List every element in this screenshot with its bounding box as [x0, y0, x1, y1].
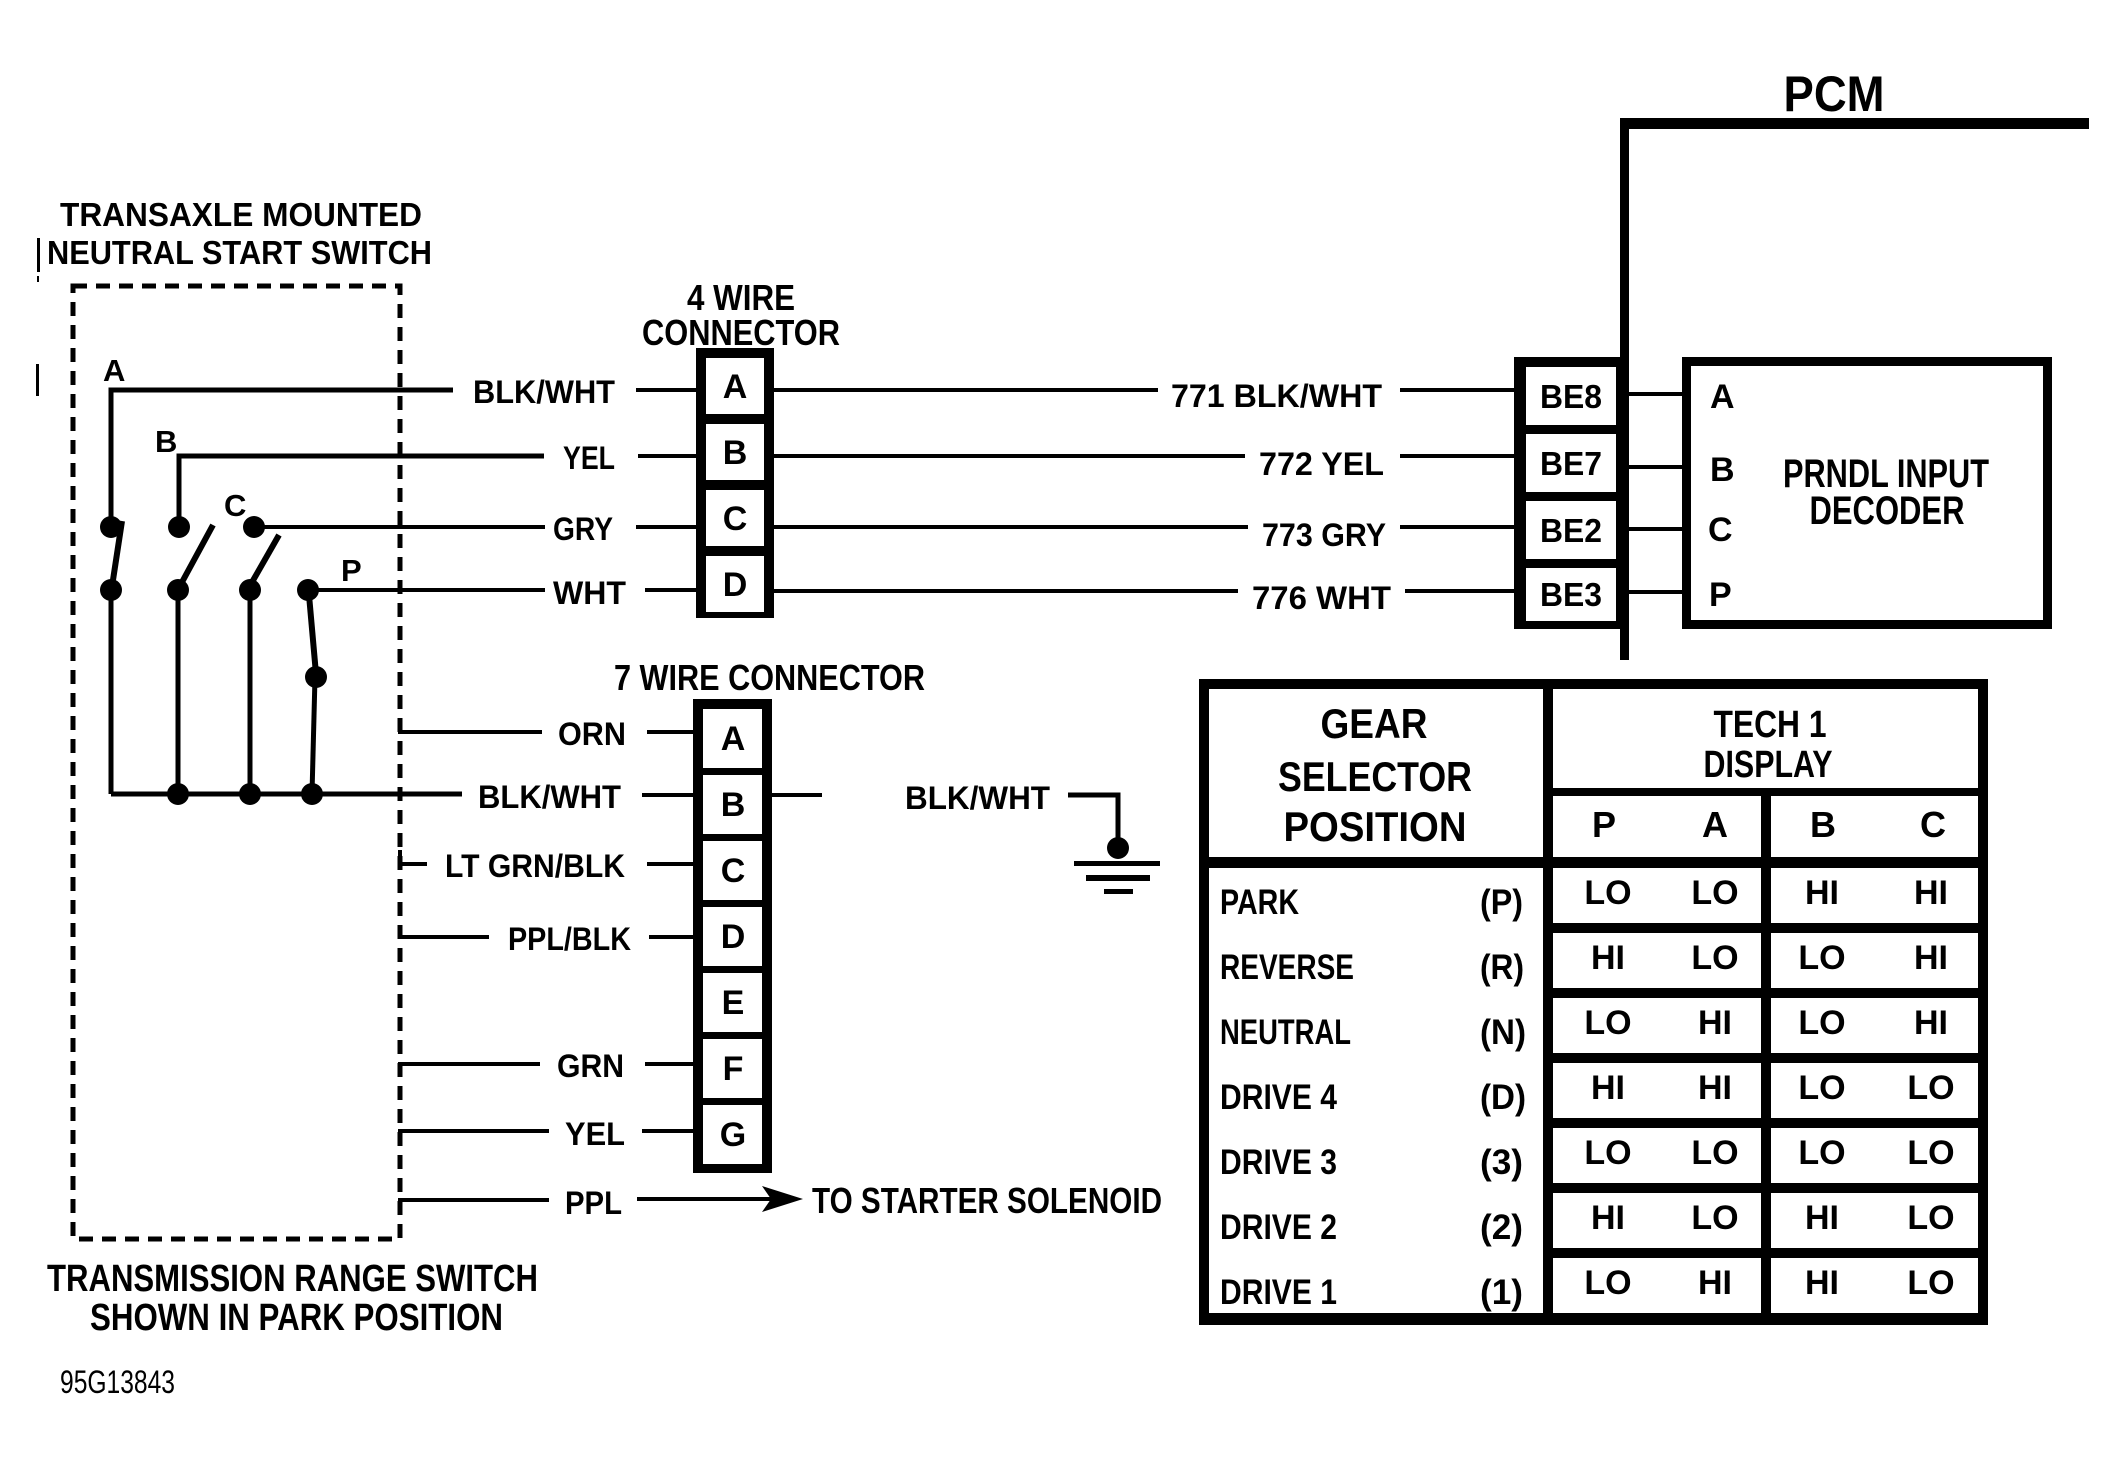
wire 773 to BE2 [1400, 525, 1516, 529]
wire GRN to pin F [645, 1062, 695, 1066]
svg-text:SELECTOR: SELECTOR [1278, 753, 1472, 800]
svg-text:LO: LO [1691, 874, 1738, 912]
svg-text:POSITION: POSITION [1284, 803, 1467, 850]
switch pole B upper contact [168, 516, 190, 538]
svg-text:SHOWN IN PARK POSITION: SHOWN IN PARK POSITION [90, 1297, 503, 1339]
switch SW1 dashed enclosure [73, 286, 400, 1239]
svg-text:A: A [103, 353, 125, 388]
svg-text:E: E [722, 984, 745, 1022]
PRNDL input decoder U1 box [1682, 357, 2052, 629]
table header cell: gear selector position [1209, 689, 1543, 857]
connector J1 pin A cell [706, 358, 764, 414]
svg-text:LO: LO [1691, 1134, 1738, 1172]
svg-text:7 WIRE CONNECTOR: 7 WIRE CONNECTOR [614, 657, 925, 698]
switch pole A upper contact [100, 516, 122, 538]
svg-text:772 YEL: 772 YEL [1259, 446, 1384, 482]
data row 2 [1553, 933, 1761, 988]
pin BE3 cell [1526, 568, 1616, 621]
svg-text:ORN: ORN [558, 716, 626, 752]
svg-text:771 BLK/WHT: 771 BLK/WHT [1171, 378, 1382, 414]
svg-text:BE8: BE8 [1540, 378, 1602, 415]
wire LT GRN/BLK to pin C [647, 862, 695, 866]
svg-text:(P): (P) [1480, 883, 1523, 922]
data row 7 [1553, 1258, 1761, 1313]
svg-text:LO: LO [1584, 1134, 1631, 1172]
wire A down to bus [109, 590, 114, 794]
wire YEL to pin G [642, 1129, 695, 1133]
svg-text:(R): (R) [1480, 948, 1524, 987]
connector J1 pin B cell [706, 424, 764, 480]
ground bus wire [111, 792, 462, 797]
svg-text:HI: HI [1591, 1069, 1625, 1107]
svg-text:P: P [341, 553, 362, 588]
svg-text:LO: LO [1584, 874, 1631, 912]
connector J2 (7 wire) body [693, 699, 772, 1173]
svg-text:95G13843: 95G13843 [60, 1364, 175, 1400]
wire row A to connector [636, 388, 698, 392]
svg-text:(1): (1) [1480, 1273, 1523, 1312]
svg-text:DRIVE 2: DRIVE 2 [1220, 1208, 1337, 1247]
svg-text:HI: HI [1805, 874, 1839, 912]
bus junction B [167, 783, 189, 805]
wire PPL arrow to starter solenoid [637, 1197, 775, 1201]
scan artifact tick 2 [36, 364, 39, 396]
svg-text:NEUTRAL: NEUTRAL [1220, 1013, 1351, 1052]
svg-text:LO: LO [1907, 1069, 1954, 1107]
table left data cell [1209, 868, 1543, 1313]
table header cell: tech 1 display [1553, 689, 1978, 788]
svg-text:BLK/WHT: BLK/WHT [478, 779, 621, 815]
svg-text:(3): (3) [1480, 1143, 1523, 1182]
svg-text:LT GRN/BLK: LT GRN/BLK [445, 848, 625, 884]
wire row B to connector [638, 454, 698, 458]
bus junction C [239, 783, 261, 805]
svg-text:YEL: YEL [565, 1116, 625, 1152]
svg-text:PPL: PPL [565, 1185, 622, 1221]
bus junction P [301, 783, 323, 805]
svg-text:DECODER: DECODER [1810, 489, 1965, 533]
wire 773 from connector C [774, 525, 1248, 529]
svg-text:HI: HI [1698, 1004, 1732, 1042]
scan artifact tick 1 [37, 238, 40, 272]
svg-text:GRN: GRN [557, 1048, 624, 1084]
data row 4 [1553, 1063, 1761, 1118]
svg-text:LO: LO [1798, 1069, 1845, 1107]
svg-text:P: P [1592, 804, 1616, 845]
svg-text:HI: HI [1914, 939, 1948, 977]
svg-text:C: C [723, 500, 748, 538]
svg-text:F: F [723, 1050, 744, 1088]
pin BE8 cell [1526, 367, 1616, 425]
gear selector table frame [1199, 679, 1988, 1325]
connector J1 pin D cell [706, 556, 764, 612]
svg-text:C: C [1920, 804, 1946, 845]
pin BE7 cell [1526, 434, 1616, 492]
switch pole C upper contact [243, 516, 265, 538]
svg-text:LO: LO [1584, 1004, 1631, 1042]
svg-text:LO: LO [1584, 1264, 1631, 1302]
svg-text:(D): (D) [1480, 1078, 1526, 1117]
wire row C to connector [636, 525, 698, 529]
svg-text:G: G [720, 1116, 746, 1154]
svg-text:B: B [1810, 804, 1836, 845]
svg-text:LO: LO [1907, 1134, 1954, 1172]
svg-text:DRIVE 4: DRIVE 4 [1220, 1078, 1337, 1117]
wire C down to bus [248, 590, 253, 794]
svg-text:P: P [1709, 576, 1732, 614]
svg-text:NEUTRAL START SWITCH: NEUTRAL START SWITCH [47, 234, 432, 271]
svg-text:YEL: YEL [563, 440, 615, 476]
svg-text:HI: HI [1698, 1264, 1732, 1302]
wire 771 to BE8 [1400, 388, 1516, 392]
svg-text:LO: LO [1691, 939, 1738, 977]
svg-text:BLK/WHT: BLK/WHT [473, 374, 615, 410]
svg-text:WHT: WHT [553, 575, 626, 611]
wire BE8 to decoder A [1626, 392, 1686, 396]
wire 771 from connector A [774, 388, 1158, 392]
switch pole C lower contact [239, 579, 261, 601]
connector J2 pin A cell [703, 709, 762, 768]
svg-text:PCM: PCM [1784, 66, 1885, 122]
svg-text:A: A [721, 720, 746, 758]
svg-text:776 WHT: 776 WHT [1252, 580, 1391, 616]
table subheader P A [1553, 796, 1761, 857]
switch pole A lower contact [100, 579, 122, 601]
data row 6 [1553, 1193, 1761, 1248]
svg-text:HI: HI [1805, 1264, 1839, 1302]
ground G1 [1107, 837, 1129, 859]
svg-text:DISPLAY: DISPLAY [1704, 744, 1833, 786]
svg-text:C: C [1708, 511, 1733, 549]
svg-text:HI: HI [1591, 1199, 1625, 1237]
svg-text:C: C [721, 852, 746, 890]
wire C from upper contact [254, 525, 545, 529]
svg-text:GRY: GRY [553, 511, 613, 547]
svg-text:(2): (2) [1480, 1208, 1523, 1247]
PCM boundary left line [1620, 118, 1629, 660]
connector J2 pin C cell [703, 841, 762, 900]
svg-text:TRANSAXLE MOUNTED: TRANSAXLE MOUNTED [60, 196, 422, 233]
switch pole P blade (closed) [309, 595, 316, 674]
svg-text:HI: HI [1591, 939, 1625, 977]
wire ORN to pin A [647, 730, 695, 734]
svg-text:BE7: BE7 [1540, 445, 1602, 482]
wire P from contact [308, 588, 545, 592]
svg-text:TRANSMISSION RANGE SWITCH: TRANSMISSION RANGE SWITCH [47, 1258, 538, 1300]
svg-text:DRIVE 3: DRIVE 3 [1220, 1143, 1337, 1182]
wire stub LT GRN/BLK [398, 850, 402, 864]
wire A riser [111, 390, 453, 527]
svg-text:A: A [1710, 378, 1735, 416]
wire 772 from connector B [774, 454, 1245, 458]
wire from pin B right [772, 793, 822, 797]
switch pole A blade (closed) [113, 521, 122, 580]
connector J2 pin B cell [703, 775, 762, 834]
wire BE3 to decoder P [1626, 590, 1686, 594]
svg-text:B: B [1710, 451, 1735, 489]
switch pole P contact [297, 579, 319, 601]
wire stub ORN [398, 730, 542, 734]
svg-text:BLK/WHT: BLK/WHT [905, 780, 1050, 816]
pin BE2 cell [1526, 501, 1616, 559]
svg-text:LO: LO [1907, 1199, 1954, 1237]
data row 1 [1553, 868, 1761, 923]
wire row D to connector [645, 588, 698, 592]
svg-text:LO: LO [1907, 1264, 1954, 1302]
svg-text:HI: HI [1914, 874, 1948, 912]
connector J2 pin G cell [703, 1105, 762, 1164]
svg-text:A: A [1702, 804, 1728, 845]
svg-text:B: B [721, 786, 746, 824]
svg-text:B: B [723, 434, 748, 472]
wire stub GRN [398, 1062, 540, 1066]
wire stub YEL [398, 1129, 549, 1133]
data row 5 [1553, 1128, 1761, 1183]
svg-text:LO: LO [1798, 1004, 1845, 1042]
svg-text:TECH 1: TECH 1 [1714, 704, 1827, 746]
svg-text:A: A [723, 368, 748, 406]
wire 776 to BE3 [1405, 589, 1516, 593]
switch pole B lower contact [167, 579, 189, 601]
wire 776 from connector D [774, 589, 1238, 593]
wire B down to bus [176, 590, 181, 794]
PCM boundary top line [1620, 118, 2089, 129]
wire P down to bus [312, 677, 315, 794]
svg-text:LO: LO [1691, 1199, 1738, 1237]
wire BE7 to decoder B [1626, 465, 1686, 469]
svg-text:BE2: BE2 [1540, 512, 1602, 549]
svg-text:LO: LO [1798, 1134, 1845, 1172]
svg-text:HI: HI [1914, 1004, 1948, 1042]
connector J1 pin C cell [706, 490, 764, 546]
wire stub PPL/BLK [398, 935, 489, 939]
switch pole B blade (open) [181, 525, 213, 584]
wire 772 to BE7 [1400, 454, 1516, 458]
wire to ground [1068, 795, 1118, 846]
svg-text:BE3: BE3 [1540, 576, 1602, 613]
wire B riser [179, 456, 544, 527]
svg-text:B: B [155, 424, 177, 459]
switch pole P pivot [305, 666, 327, 688]
svg-text:(N): (N) [1480, 1013, 1526, 1052]
svg-text:PPL/BLK: PPL/BLK [508, 921, 631, 957]
data row 3 [1553, 998, 1761, 1053]
svg-text:REVERSE: REVERSE [1220, 948, 1354, 987]
svg-text:HI: HI [1698, 1069, 1732, 1107]
switch pole C blade (open) [251, 535, 279, 584]
connector J1 (4 wire) body [696, 348, 774, 618]
connector J2 pin E cell [703, 973, 762, 1032]
svg-text:C: C [224, 488, 246, 523]
svg-text:CONNECTOR: CONNECTOR [642, 312, 840, 353]
PCM pin block body [1514, 357, 1626, 629]
svg-text:DRIVE 1: DRIVE 1 [1220, 1273, 1337, 1312]
svg-text:LO: LO [1798, 939, 1845, 977]
connector J2 pin F cell [703, 1039, 762, 1098]
connector J2 pin D cell [703, 907, 762, 966]
wire stub PPL [398, 1198, 549, 1202]
svg-text:TO STARTER SOLENOID: TO STARTER SOLENOID [812, 1180, 1162, 1221]
wire BE2 to decoder C [1626, 527, 1686, 531]
svg-text:PARK: PARK [1220, 883, 1299, 922]
wire BLK/WHT to pin B [642, 793, 695, 797]
wire PPL/BLK to pin D [649, 935, 695, 939]
svg-text:D: D [723, 566, 748, 604]
svg-text:GEAR: GEAR [1321, 700, 1428, 747]
svg-text:HI: HI [1805, 1199, 1839, 1237]
svg-text:D: D [721, 918, 746, 956]
svg-text:773 GRY: 773 GRY [1262, 517, 1386, 553]
table subheader B C [1771, 796, 1978, 857]
